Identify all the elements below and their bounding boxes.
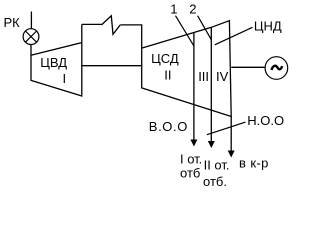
- svg-text:III: III: [198, 69, 209, 84]
- svg-text:I: I: [63, 71, 67, 86]
- reheater box left edge: [81, 24, 83, 42]
- divider section III/IV with extraction arrow II отбор: [210, 27, 212, 141]
- svg-text:РК: РК: [4, 15, 21, 30]
- svg-text:II от.: II от.: [204, 158, 230, 173]
- cylinder ЦСД-ЦНД outline: [142, 21, 232, 117]
- reheater box top edge left part: [82, 23, 102, 25]
- divider section II/III with extraction arrow I отбор: [193, 33, 195, 140]
- reheater break zigzag: [102, 16, 121, 35]
- svg-text:отб: отб: [180, 166, 200, 181]
- reheater box right edge: [141, 24, 143, 48]
- wire valve to ЦВД inlet: [30, 45, 32, 56]
- shaft ЦНД to generator: [231, 66, 265, 68]
- svg-text:ЦВД: ЦВД: [40, 55, 67, 70]
- svg-text:II: II: [164, 68, 171, 83]
- valve РК circle: [23, 29, 39, 45]
- reheater box top edge right part: [120, 24, 141, 26]
- svg-text:ЦСД: ЦСД: [151, 51, 179, 66]
- wire steam inlet above valve: [30, 12, 32, 29]
- generator circle: [265, 57, 288, 80]
- shaft ЦВД to ЦСД (reheater box bottom): [82, 65, 142, 67]
- generator tilde symbol: [272, 66, 283, 70]
- leader line from 1 to divider II/III: [176, 16, 194, 46]
- leader line from ЦНД to section IV: [215, 27, 253, 45]
- svg-text:отб.: отб.: [203, 174, 227, 189]
- svg-text:1: 1: [170, 2, 177, 17]
- svg-text:IV: IV: [216, 69, 229, 84]
- cylinder ЦВД outline: [31, 43, 82, 96]
- svg-text:I от.: I от.: [180, 151, 202, 166]
- leader line from 2 to divider III/IV: [198, 16, 212, 40]
- wire to condenser with arrow: [230, 117, 232, 152]
- svg-text:В.О.О: В.О.О: [149, 119, 188, 134]
- svg-text:ЦНД: ЦНД: [254, 18, 282, 33]
- svg-text:в к-р: в к-р: [239, 155, 269, 170]
- svg-text:Н.О.О: Н.О.О: [247, 113, 284, 128]
- valve РК cross: [25, 31, 36, 42]
- leader line from Н.О.О to extraction II: [207, 122, 246, 135]
- svg-text:2: 2: [189, 2, 196, 17]
